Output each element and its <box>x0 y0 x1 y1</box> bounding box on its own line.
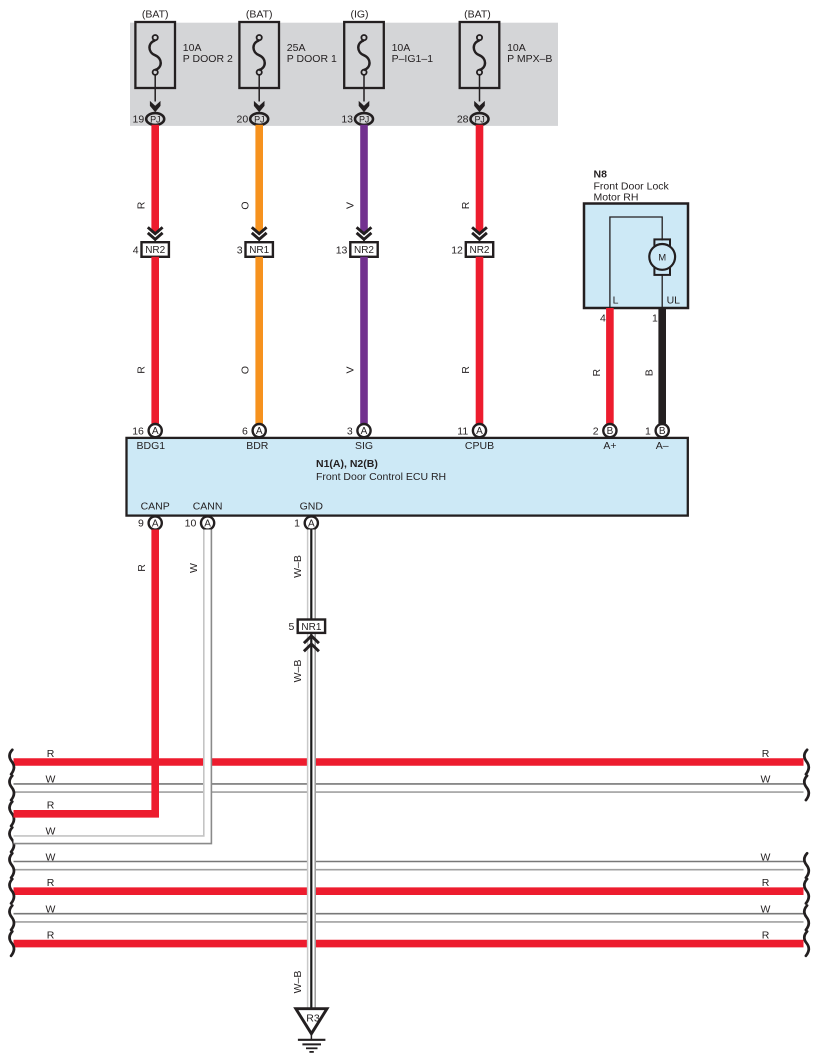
svg-text:PJ: PJ <box>474 114 484 124</box>
svg-text:PJ: PJ <box>150 114 160 124</box>
svg-text:N1(A), N2(B): N1(A), N2(B) <box>316 458 378 470</box>
wire R from PJ to NR2 <box>476 125 484 233</box>
connector NR2 box <box>350 242 377 257</box>
svg-text:PJ: PJ <box>254 114 264 124</box>
svg-text:R: R <box>47 748 55 760</box>
svg-text:W: W <box>46 904 56 916</box>
wire R from NR2 to ECU <box>476 257 484 424</box>
fuse F4 10A P MPX–B <box>460 22 500 88</box>
svg-text:BDR: BDR <box>246 440 269 452</box>
svg-text:R: R <box>47 800 55 812</box>
svg-text:O: O <box>240 366 252 374</box>
connector NR2 box <box>142 242 169 257</box>
svg-text:R: R <box>460 201 472 209</box>
connector NR2 pin 12 chevrons <box>472 227 487 239</box>
connector NR2 pin 13 chevrons <box>357 227 372 239</box>
svg-text:A: A <box>152 426 159 437</box>
svg-text:4: 4 <box>600 313 606 325</box>
svg-text:R: R <box>136 366 148 374</box>
wire from fuse F1 to connector PJ <box>154 75 156 102</box>
wire W from ECU CANN pin 10 down to bus row 4 <box>14 530 212 844</box>
svg-text:B: B <box>607 426 614 437</box>
svg-text:CPUB: CPUB <box>465 440 494 452</box>
wire from fuse F4 to connector PJ <box>479 75 481 102</box>
svg-text:4: 4 <box>133 244 139 256</box>
wire O from PJ to NR1 <box>255 125 263 233</box>
bus row 7 left break <box>9 906 14 930</box>
fuse F3 10A P–IG1–1 <box>344 22 384 88</box>
bus row 4 left break <box>9 828 14 852</box>
svg-text:R: R <box>47 877 55 889</box>
N8 internal wiring <box>610 217 662 308</box>
svg-text:A: A <box>204 519 211 530</box>
bus wire row 2 (W) <box>14 783 804 785</box>
bus row 1 right break <box>804 750 809 774</box>
ground point R3 triangle <box>296 1009 327 1034</box>
svg-text:NR2: NR2 <box>145 245 165 256</box>
svg-text:W: W <box>46 851 56 863</box>
bus row 8 right break <box>804 931 809 955</box>
motor M circle <box>649 244 675 270</box>
svg-text:2: 2 <box>593 425 599 437</box>
svg-text:19: 19 <box>133 114 145 126</box>
svg-text:1: 1 <box>645 425 651 437</box>
svg-text:B: B <box>644 369 656 376</box>
wire B from N8 pin 1 to ECU A- <box>658 308 666 424</box>
wire W-B from ECU GND pin 1 to ground R3 <box>307 530 316 1009</box>
bus row 2 right break <box>804 776 809 800</box>
svg-text:R: R <box>136 564 148 572</box>
svg-text:(BAT): (BAT) <box>464 9 491 21</box>
svg-text:3: 3 <box>237 244 243 256</box>
bus wire row 6 (R) <box>14 887 804 895</box>
bus row 1 left break <box>9 750 14 774</box>
connector NR1 pin 5 chevrons <box>304 636 319 651</box>
svg-text:W–B: W–B <box>292 971 304 994</box>
svg-text:M: M <box>658 252 666 263</box>
wire R from PJ to NR2 <box>151 125 159 233</box>
svg-text:A: A <box>256 426 263 437</box>
wire V from PJ to NR2 <box>360 125 368 233</box>
svg-text:A: A <box>476 426 483 437</box>
motor M brushes <box>654 239 670 247</box>
svg-text:12: 12 <box>451 244 463 256</box>
svg-text:R: R <box>591 368 603 376</box>
svg-text:5: 5 <box>289 621 295 633</box>
svg-text:1: 1 <box>652 313 658 325</box>
bus row 5 left break <box>9 853 14 877</box>
svg-text:28: 28 <box>457 114 469 126</box>
svg-text:N8: N8 <box>594 169 608 181</box>
svg-text:CANN: CANN <box>193 501 223 513</box>
ECU top pin 2 (B) A+ <box>603 424 616 437</box>
svg-text:W: W <box>761 774 771 786</box>
connector PJ pin 19 <box>146 113 164 125</box>
svg-text:O: O <box>240 201 252 209</box>
svg-text:PJ: PJ <box>359 114 369 124</box>
svg-text:13: 13 <box>341 114 353 126</box>
svg-text:NR1: NR1 <box>301 622 321 633</box>
wire V from NR2 to ECU <box>360 257 368 424</box>
bus row 6 right break <box>804 879 809 903</box>
svg-text:L: L <box>613 295 619 307</box>
svg-text:R: R <box>762 748 770 760</box>
connector PJ pin 28 <box>471 113 489 125</box>
connector PJ pin 20 <box>250 113 268 125</box>
svg-text:W–B: W–B <box>292 555 304 578</box>
svg-text:UL: UL <box>667 295 681 307</box>
wire O from NR1 to ECU <box>255 257 263 424</box>
ECU top pin 1 (B) A– <box>656 424 669 437</box>
bus wire row 7 (W) <box>14 913 804 915</box>
svg-text:W: W <box>46 774 56 786</box>
ECU top pin 3 (A) SIG <box>357 424 370 437</box>
svg-text:R: R <box>47 929 55 941</box>
fuse F1 10A P DOOR 2 <box>135 22 175 88</box>
svg-text:P DOOR 2: P DOOR 2 <box>183 53 233 65</box>
svg-text:A+: A+ <box>603 440 616 452</box>
svg-text:W–B: W–B <box>292 660 304 683</box>
svg-text:W: W <box>188 563 200 573</box>
fuse F2 25A P DOOR 1 <box>239 22 279 88</box>
bus row 8 left break <box>9 931 14 955</box>
bus wire row 1 (R) <box>14 758 804 766</box>
svg-text:Front Door Control ECU RH: Front Door Control ECU RH <box>316 471 446 483</box>
bus wire row 5 (W) <box>14 861 804 863</box>
svg-text:Motor RH: Motor RH <box>594 192 639 204</box>
bus row 2 left break <box>9 776 14 800</box>
ECU top pin 16 (A) BDG1 <box>149 424 162 437</box>
svg-text:A: A <box>361 426 368 437</box>
wire R from NR2 to ECU <box>151 257 159 424</box>
svg-text:(BAT): (BAT) <box>142 9 169 21</box>
svg-text:10: 10 <box>185 518 197 530</box>
svg-text:W: W <box>761 851 771 863</box>
svg-text:A: A <box>152 519 159 530</box>
arrowhead into PJ pin 20 <box>254 101 265 112</box>
svg-text:3: 3 <box>347 425 353 437</box>
ground symbol <box>310 1032 312 1040</box>
wire R from N8 pin 4 to ECU A+ <box>606 308 614 424</box>
svg-text:NR1: NR1 <box>249 245 269 256</box>
svg-text:6: 6 <box>242 425 248 437</box>
svg-text:(BAT): (BAT) <box>246 9 273 21</box>
svg-text:R: R <box>460 366 472 374</box>
svg-text:16: 16 <box>132 425 144 437</box>
svg-text:BDG1: BDG1 <box>137 440 166 452</box>
svg-text:1: 1 <box>294 518 300 530</box>
wire from fuse F3 to connector PJ <box>363 75 365 102</box>
svg-text:W: W <box>761 904 771 916</box>
junction block J/B band <box>130 23 558 126</box>
arrowhead into PJ pin 28 <box>474 101 485 112</box>
svg-text:A: A <box>308 519 315 530</box>
wire from fuse F2 to connector PJ <box>258 75 260 102</box>
bus wire row 8 (R) <box>14 940 804 948</box>
svg-text:9: 9 <box>138 518 144 530</box>
svg-text:13: 13 <box>336 244 348 256</box>
bus row 6 left break <box>9 879 14 903</box>
svg-text:P MPX–B: P MPX–B <box>507 53 552 65</box>
arrowhead into PJ pin 13 <box>359 101 370 112</box>
svg-text:R: R <box>762 877 770 889</box>
svg-text:(IG): (IG) <box>350 9 368 21</box>
svg-text:B: B <box>659 426 666 437</box>
component N8 box <box>584 204 688 309</box>
svg-text:P–IG1–1: P–IG1–1 <box>392 53 434 65</box>
svg-text:R3: R3 <box>306 1012 320 1024</box>
svg-text:CANP: CANP <box>141 501 170 513</box>
svg-text:20: 20 <box>237 114 249 126</box>
connector NR2 box <box>466 242 493 257</box>
svg-text:GND: GND <box>300 501 324 513</box>
arrowhead into PJ pin 19 <box>150 101 161 112</box>
ECU top pin 11 (A) CPUB <box>473 424 486 437</box>
svg-text:A–: A– <box>656 440 669 452</box>
ECU N1(A),N2(B) Front Door Control ECU RH box <box>127 438 688 516</box>
svg-text:V: V <box>344 202 356 209</box>
svg-text:NR2: NR2 <box>354 245 374 256</box>
svg-text:11: 11 <box>457 425 468 437</box>
bus row 7 right break <box>804 906 809 930</box>
connector NR1 box <box>298 620 325 633</box>
connector NR1 pin 3 chevrons <box>252 227 267 239</box>
connector NR1 box <box>246 242 273 257</box>
wire R from ECU CANP pin 9 down to bus row 3 <box>14 530 156 814</box>
connector PJ pin 13 <box>355 113 373 125</box>
connector NR2 pin 4 chevrons <box>148 227 163 239</box>
svg-text:V: V <box>344 366 356 373</box>
svg-text:R: R <box>136 201 148 209</box>
svg-text:P DOOR 1: P DOOR 1 <box>287 53 337 65</box>
bus row 3 left break <box>9 802 14 826</box>
ECU top pin 6 (A) BDR <box>253 424 266 437</box>
svg-text:NR2: NR2 <box>469 245 489 256</box>
bus row 5 right break <box>804 853 809 877</box>
svg-text:R: R <box>762 929 770 941</box>
svg-text:SIG: SIG <box>355 440 373 452</box>
